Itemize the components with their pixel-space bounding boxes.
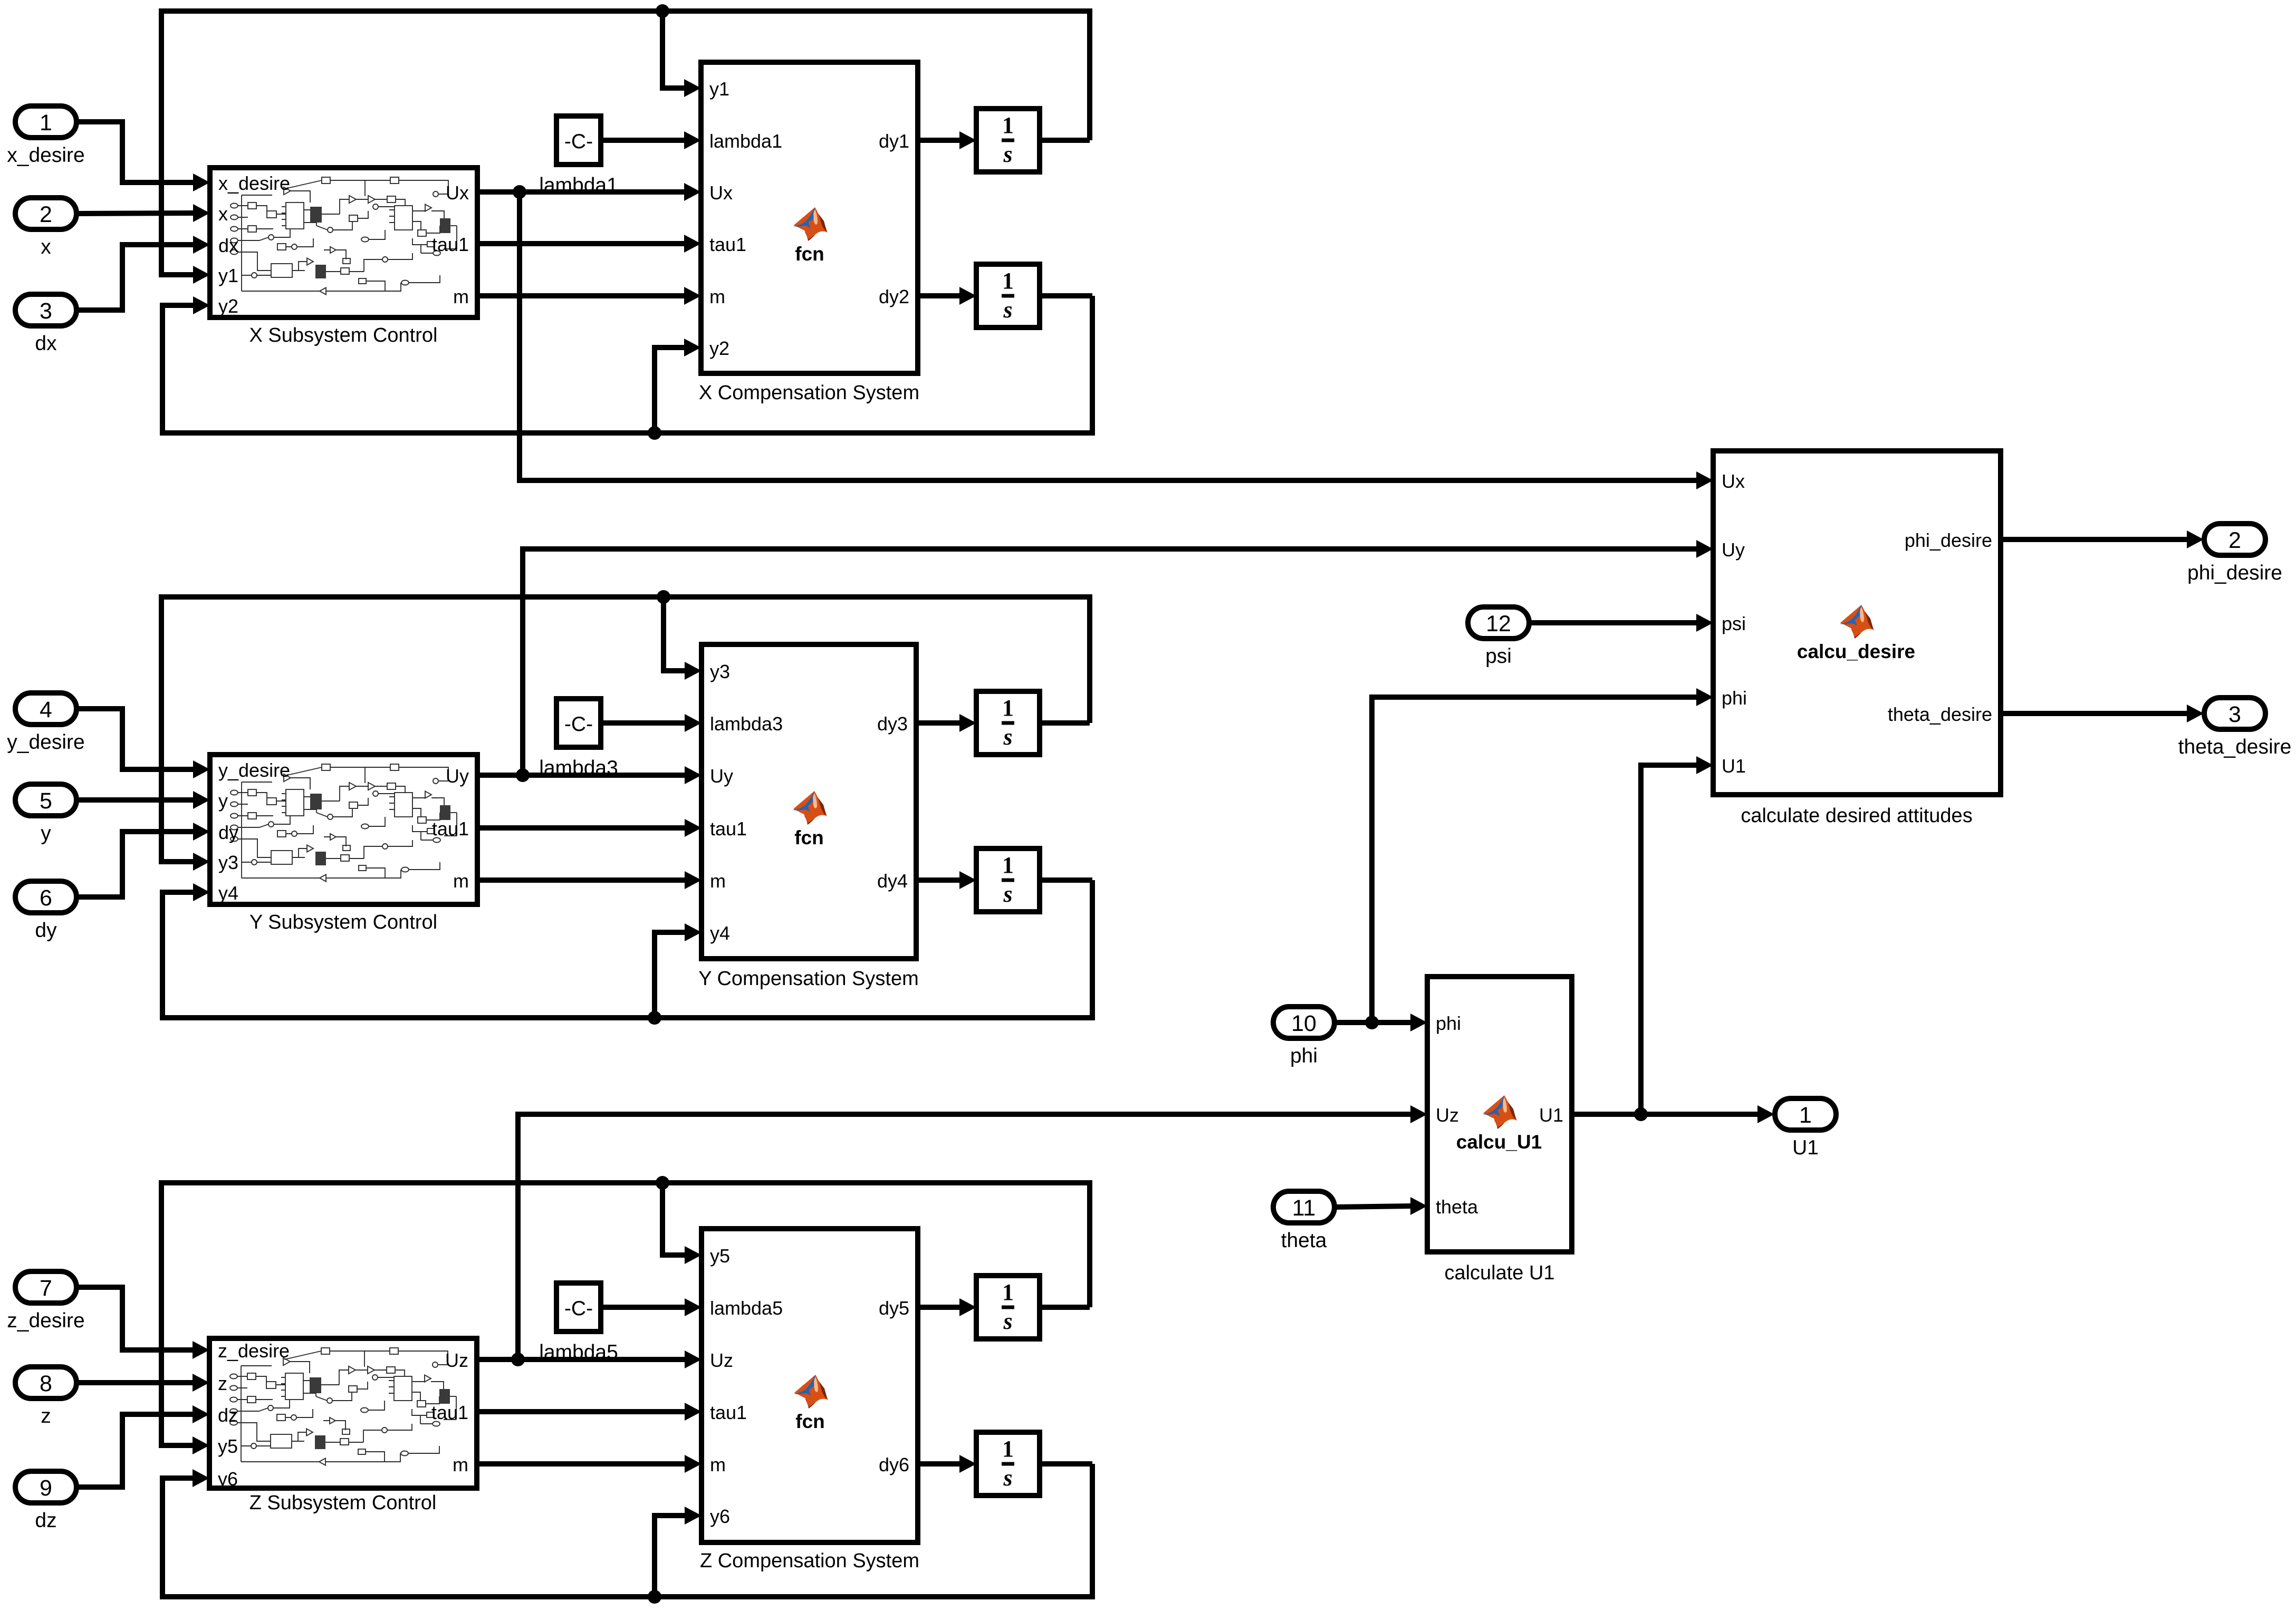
wire lambda3 -> Y Compensation System: [601, 720, 687, 726]
input port 2 (x): [15, 198, 76, 229]
svg-text:Uz: Uz: [710, 1349, 733, 1371]
integrator 1/s (dy2): [976, 264, 1040, 327]
svg-text:m: m: [453, 1454, 468, 1475]
svg-text:Uz: Uz: [445, 1349, 468, 1371]
wire theta -> calculate U1: [1334, 1206, 1411, 1207]
wire lambda5 -> Z Compensation System: [601, 1305, 687, 1310]
svg-text:tau1: tau1: [709, 234, 746, 255]
input port 10 (phi): [1273, 1007, 1334, 1038]
wire psi -> calculate desired attitudes: [1529, 620, 1697, 625]
function block calculate U1 (calcu_U1): [1427, 977, 1572, 1252]
wire m (Z): [477, 1461, 687, 1467]
svg-text:X Compensation System: X Compensation System: [699, 382, 919, 404]
wire integrator dy1 output: [1040, 138, 1090, 143]
node Z top loop junction: [656, 1176, 669, 1190]
wire dy5 -> integrator: [918, 1305, 962, 1310]
constant block -C- (lambda5): [556, 1283, 601, 1332]
svg-text:dx: dx: [218, 235, 238, 256]
svg-text:dz: dz: [218, 1404, 238, 1426]
node Ux junction: [513, 185, 526, 199]
svg-text:z: z: [218, 1373, 227, 1394]
node X top loop junction: [656, 4, 669, 18]
svg-text:y3: y3: [710, 661, 730, 682]
svg-text:U1: U1: [1792, 1136, 1819, 1159]
svg-text:5: 5: [40, 788, 52, 814]
svg-text:2: 2: [2228, 528, 2241, 553]
svg-text:3: 3: [2228, 702, 2241, 727]
wire tau1 (X): [477, 241, 686, 246]
wire y -> Y Subsystem Control: [76, 797, 195, 803]
wire integrator dy5 output: [1040, 1305, 1090, 1310]
wire Z top feedback loop: [161, 1183, 1090, 1445]
wire Z bottom loop branch -> Z Compensation System y6: [655, 1516, 687, 1597]
svg-text:1: 1: [40, 110, 52, 136]
svg-text:y2: y2: [709, 337, 729, 359]
integrator 1/s (dy6): [976, 1432, 1040, 1496]
svg-text:s: s: [1003, 1465, 1012, 1491]
svg-text:s: s: [1003, 141, 1012, 167]
MATLAB fcn icon (Y compensation): [792, 791, 827, 825]
integrator 1/s (dy3): [976, 691, 1040, 755]
output port 1 (U1): [1775, 1098, 1836, 1130]
wire X bottom feedback loop: [162, 296, 1092, 433]
svg-text:y1: y1: [218, 265, 238, 286]
svg-text:U1: U1: [1722, 755, 1746, 777]
wire X top loop branch -> X Compensation System y1: [662, 11, 686, 88]
svg-text:6: 6: [40, 885, 52, 911]
svg-text:theta_desire: theta_desire: [2178, 736, 2292, 758]
svg-text:1: 1: [1002, 112, 1014, 138]
wire Y top loop branch -> Y Compensation System y3: [664, 597, 687, 671]
svg-text:-C-: -C-: [564, 713, 593, 736]
svg-text:Ux: Ux: [446, 182, 469, 204]
function block Z Compensation System: [702, 1229, 918, 1542]
svg-text:y2: y2: [218, 295, 238, 317]
subsystem block Y Subsystem Control: [210, 755, 477, 904]
wire Y top feedback loop: [161, 597, 1090, 862]
svg-text:m: m: [453, 870, 469, 892]
svg-text:phi_desire: phi_desire: [1905, 529, 1992, 551]
constant block -C- (lambda1): [556, 116, 601, 165]
svg-text:Y Compensation System: Y Compensation System: [698, 968, 919, 990]
svg-text:11: 11: [1292, 1195, 1316, 1221]
svg-text:y4: y4: [218, 882, 238, 904]
svg-text:dz: dz: [35, 1509, 56, 1532]
svg-text:psi: psi: [1722, 613, 1746, 634]
svg-text:1: 1: [1002, 268, 1014, 294]
svg-text:x_desire: x_desire: [218, 172, 290, 194]
wire Ux branch to calc block: [520, 192, 1697, 480]
node X bottom loop junction: [648, 426, 661, 440]
wire integrator dy2 output: [1040, 293, 1092, 298]
input port 8 (z): [15, 1367, 76, 1398]
MATLAB fcn icon (calcu_U1): [1482, 1095, 1517, 1129]
svg-text:calculate U1: calculate U1: [1444, 1262, 1554, 1284]
MATLAB fcn icon (X compensation): [793, 207, 828, 241]
svg-text:fcn: fcn: [795, 243, 824, 265]
svg-text:z_desire: z_desire: [7, 1309, 84, 1332]
wire dx -> X Subsystem Control: [76, 245, 195, 310]
input port 11 (theta): [1273, 1191, 1334, 1223]
svg-text:theta_desire: theta_desire: [1888, 703, 1992, 725]
svg-text:tau1: tau1: [432, 234, 469, 255]
input port 5 (y): [15, 784, 76, 816]
svg-text:Uy: Uy: [446, 765, 469, 787]
svg-text:7: 7: [40, 1276, 52, 1301]
svg-text:psi: psi: [1485, 645, 1512, 668]
svg-text:U1: U1: [1539, 1104, 1563, 1126]
wire z_desire -> Z Subsystem Control: [76, 1287, 195, 1350]
function block X Compensation System: [701, 62, 918, 373]
svg-text:y6: y6: [218, 1468, 238, 1490]
wire Uy (Y): [477, 773, 687, 778]
svg-text:y5: y5: [710, 1245, 730, 1267]
svg-text:10: 10: [1291, 1011, 1317, 1036]
svg-text:lambda5: lambda5: [539, 1341, 618, 1364]
subsystem block Z Subsystem Control: [209, 1338, 477, 1488]
svg-text:1: 1: [1002, 852, 1014, 878]
integrator 1/s (dy1): [976, 109, 1040, 172]
svg-text:y: y: [41, 822, 51, 845]
svg-text:calculate desired attitudes: calculate desired attitudes: [1741, 805, 1972, 827]
node U1 junction: [1634, 1107, 1648, 1121]
svg-text:dy: dy: [35, 919, 57, 942]
integrator 1/s (dy4): [976, 848, 1040, 912]
node Uy junction: [516, 768, 530, 782]
svg-text:calcu_desire: calcu_desire: [1797, 641, 1915, 662]
input port 9 (dz): [15, 1471, 76, 1503]
svg-text:theta: theta: [1436, 1196, 1478, 1218]
svg-text:Z Compensation System: Z Compensation System: [700, 1550, 919, 1572]
wire Uz (Z): [477, 1357, 687, 1362]
svg-text:tau1: tau1: [431, 1402, 468, 1423]
svg-text:Uz: Uz: [1436, 1104, 1459, 1126]
svg-text:-C-: -C-: [564, 130, 593, 153]
wire phi -> calculate U1: [1334, 1020, 1411, 1025]
svg-text:phi: phi: [1436, 1012, 1461, 1034]
integrator 1/s (dy5): [976, 1276, 1040, 1339]
wire theta_desire -> output port 3: [2001, 711, 2187, 716]
svg-text:1: 1: [1002, 1279, 1014, 1305]
MATLAB fcn icon (calcu_desire): [1839, 605, 1874, 639]
svg-text:dy5: dy5: [879, 1297, 909, 1319]
wire Y bottom feedback loop: [162, 880, 1092, 1018]
svg-text:lambda3: lambda3: [539, 757, 618, 779]
wire dy -> Y Subsystem Control: [76, 832, 195, 897]
svg-text:dy2: dy2: [879, 286, 909, 307]
svg-text:s: s: [1003, 881, 1012, 907]
svg-text:s: s: [1003, 297, 1012, 323]
svg-text:fcn: fcn: [794, 827, 824, 848]
wire Y bottom loop branch -> Y Compensation System y4: [655, 932, 687, 1018]
svg-text:y4: y4: [710, 922, 730, 944]
svg-text:dy1: dy1: [879, 130, 909, 152]
svg-text:1: 1: [1002, 695, 1014, 721]
svg-text:x: x: [41, 236, 51, 258]
svg-text:y_desire: y_desire: [218, 759, 290, 781]
svg-text:dy6: dy6: [879, 1454, 909, 1475]
input port 1 (x_desire): [15, 106, 76, 138]
svg-text:lambda1: lambda1: [539, 174, 618, 197]
input port 4 (y_desire): [15, 693, 76, 725]
svg-text:-C-: -C-: [564, 1297, 593, 1320]
wire Uz branch to calc block: [518, 1114, 1411, 1359]
wire x -> X Subsystem Control: [76, 213, 195, 214]
svg-text:Ux: Ux: [1722, 470, 1745, 492]
svg-text:tau1: tau1: [710, 818, 747, 840]
wire dy4 -> integrator: [916, 877, 962, 883]
svg-text:tau1: tau1: [432, 818, 469, 840]
svg-text:dy3: dy3: [877, 713, 908, 735]
svg-text:y1: y1: [709, 78, 729, 100]
svg-text:phi_desire: phi_desire: [2187, 562, 2282, 584]
svg-text:9: 9: [40, 1475, 52, 1501]
wire m (X): [477, 293, 686, 298]
svg-text:dx: dx: [35, 332, 57, 355]
node Y bottom loop junction: [648, 1011, 661, 1025]
wire Z bottom feedback loop: [162, 1464, 1092, 1597]
wire X bottom loop branch -> X Compensation System y2: [655, 348, 686, 433]
wire Z top loop branch -> Z Compensation System y5: [662, 1183, 687, 1255]
wire integrator dy3 output: [1040, 720, 1090, 726]
wire tau1 (Z): [477, 1409, 687, 1414]
node phi junction: [1365, 1016, 1379, 1029]
subsystem block X Subsystem Control: [210, 168, 477, 317]
wire y_desire -> Y Subsystem Control: [76, 709, 195, 769]
svg-text:y3: y3: [218, 852, 238, 873]
function block calculate desired attitudes (calcu_desire): [1713, 451, 2001, 795]
svg-text:lambda5: lambda5: [710, 1297, 783, 1319]
svg-text:Uy: Uy: [710, 765, 733, 787]
svg-text:4: 4: [40, 697, 52, 722]
svg-text:theta: theta: [1281, 1229, 1327, 1252]
wire dz -> Z Subsystem Control: [76, 1414, 195, 1487]
wire integrator dy4 output: [1040, 877, 1092, 883]
wire Uy branch to calc block: [523, 549, 1697, 775]
input port 12 (psi): [1468, 607, 1529, 639]
svg-text:m: m: [710, 870, 726, 892]
svg-text:3: 3: [40, 298, 52, 324]
wire dy3 -> integrator: [916, 720, 962, 726]
wire dy6 -> integrator: [918, 1461, 962, 1467]
svg-text:lambda1: lambda1: [709, 130, 782, 152]
wire lambda1 -> X Compensation System: [601, 138, 686, 143]
wire U1 branch -> calculate desired attitudes: [1641, 765, 1697, 1114]
wire m (Y): [477, 877, 687, 883]
svg-text:y: y: [218, 790, 228, 812]
input port 7 (z_desire): [15, 1271, 76, 1303]
svg-text:phi: phi: [1290, 1045, 1318, 1067]
svg-text:lambda3: lambda3: [710, 713, 783, 735]
svg-text:s: s: [1003, 1308, 1012, 1334]
node Uz junction: [511, 1353, 525, 1366]
svg-text:x_desire: x_desire: [7, 144, 84, 167]
node Z bottom loop junction: [648, 1590, 661, 1604]
wire phi_desire -> output port 2: [2001, 537, 2187, 542]
wire Ux (X): [477, 189, 686, 195]
svg-text:m: m: [710, 1454, 726, 1475]
svg-text:y_desire: y_desire: [7, 731, 84, 754]
wire U1 output -> output port 1: [1572, 1112, 1758, 1117]
svg-text:1: 1: [1002, 1436, 1014, 1462]
svg-text:Uy: Uy: [1722, 539, 1745, 561]
MATLAB fcn icon (Z compensation): [793, 1375, 828, 1409]
svg-text:Y Subsystem Control: Y Subsystem Control: [249, 911, 437, 933]
svg-text:y6: y6: [710, 1506, 730, 1527]
wire x_desire -> X Subsystem Control: [76, 122, 195, 182]
svg-text:x: x: [218, 203, 228, 225]
wire dy1 -> integrator: [918, 138, 962, 143]
svg-text:2: 2: [40, 202, 52, 227]
wire tau1 (Y): [477, 825, 687, 831]
svg-text:12: 12: [1486, 611, 1511, 636]
output port 2 (phi_desire): [2204, 524, 2265, 555]
svg-text:z: z: [41, 1405, 51, 1427]
svg-text:tau1: tau1: [710, 1402, 747, 1423]
svg-text:X Subsystem Control: X Subsystem Control: [249, 324, 438, 346]
wire X top feedback loop: [161, 11, 1090, 275]
svg-text:dy4: dy4: [877, 870, 908, 892]
output port 3 (theta_desire): [2204, 698, 2265, 729]
wire phi branch -> calculate desired attitudes: [1372, 697, 1697, 1022]
svg-text:z_desire: z_desire: [218, 1340, 290, 1362]
svg-text:dy: dy: [218, 822, 238, 843]
svg-text:fcn: fcn: [795, 1411, 825, 1432]
svg-text:s: s: [1003, 724, 1012, 750]
input port 6 (dy): [15, 881, 76, 913]
svg-text:8: 8: [40, 1371, 52, 1396]
svg-text:m: m: [709, 286, 725, 307]
node Y top loop junction: [657, 590, 670, 604]
constant block -C- (lambda3): [556, 699, 601, 747]
svg-text:1: 1: [1799, 1103, 1812, 1128]
svg-text:Ux: Ux: [709, 182, 733, 204]
wire dy2 -> integrator: [918, 293, 962, 298]
svg-text:calcu_U1: calcu_U1: [1456, 1131, 1542, 1153]
svg-text:Z Subsystem Control: Z Subsystem Control: [249, 1492, 437, 1514]
svg-text:phi: phi: [1722, 687, 1747, 709]
svg-text:m: m: [453, 286, 469, 307]
input port 3 (dx): [15, 294, 76, 326]
svg-text:y5: y5: [218, 1435, 238, 1457]
function block Y Compensation System: [702, 644, 916, 959]
wire z -> Z Subsystem Control: [76, 1380, 195, 1385]
wire integrator dy6 output: [1040, 1461, 1092, 1467]
